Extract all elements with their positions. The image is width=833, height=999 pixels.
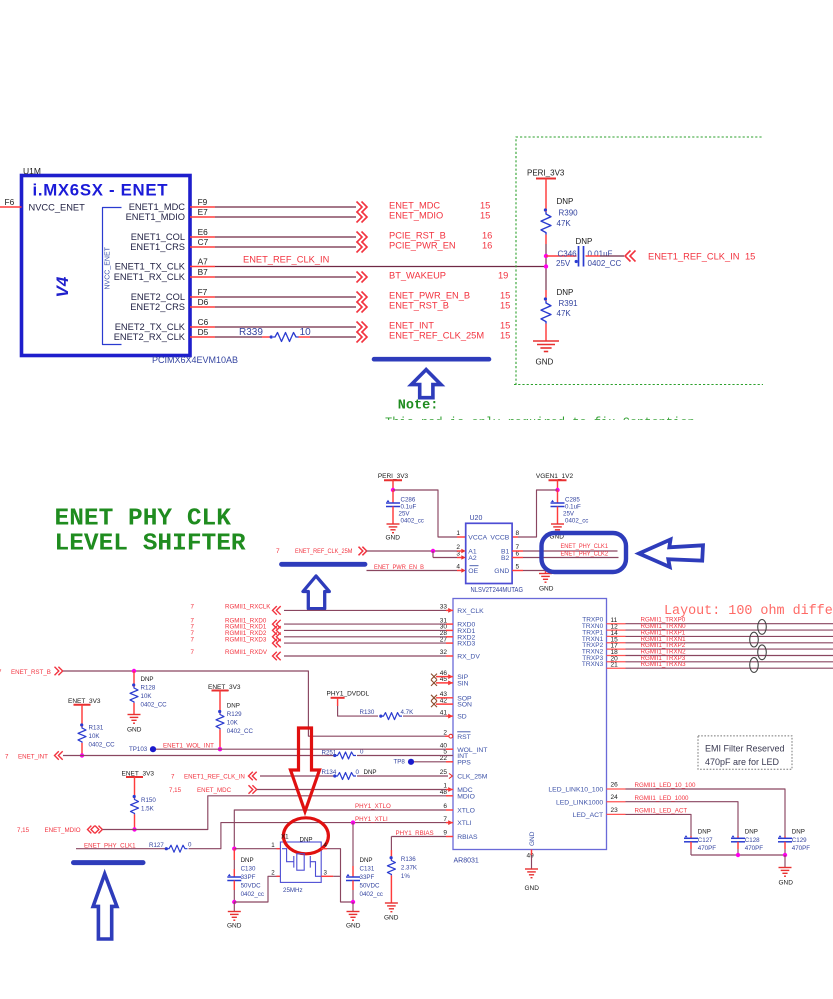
svg-text:ENET_INT: ENET_INT bbox=[389, 321, 434, 331]
svg-text:ENET_PHY_CLK2: ENET_PHY_CLK2 bbox=[561, 550, 609, 557]
off-page connector ENET_RST_B bbox=[357, 302, 368, 313]
green dashed region border bbox=[514, 137, 763, 385]
svg-text:NVCC_ENET: NVCC_ENET bbox=[29, 203, 86, 213]
wire PHY1_DVDDL to R130 bbox=[338, 706, 378, 716]
svg-text:16: 16 bbox=[482, 241, 492, 251]
node XTLI to C131 bbox=[351, 820, 355, 824]
svg-text:ENET1_REF_CLK_IN: ENET1_REF_CLK_IN bbox=[184, 774, 245, 781]
crystal internal symbol bbox=[282, 849, 321, 877]
wire ENET_MDC bbox=[215, 206, 356, 208]
blue annotation bar under ENET_REF_CLK_25M bbox=[374, 357, 489, 362]
svg-text:GND: GND bbox=[494, 568, 509, 575]
resistor R130 4.7K bbox=[379, 715, 382, 718]
node R128 junction bbox=[132, 669, 136, 673]
svg-text:33PF: 33PF bbox=[241, 874, 256, 881]
svg-text:25: 25 bbox=[440, 769, 448, 776]
svg-text:ENET1_COL: ENET1_COL bbox=[131, 232, 185, 242]
IC AR8031 PHY outline bbox=[453, 599, 607, 850]
wire R251 to INT bbox=[357, 755, 453, 757]
blue annotation up arrow (bottom left) bbox=[93, 874, 117, 939]
svg-text:DNP: DNP bbox=[227, 703, 240, 710]
svg-text:PHY1_XTLO: PHY1_XTLO bbox=[355, 803, 391, 810]
svg-text:7,15: 7,15 bbox=[169, 787, 182, 794]
svg-text:GND: GND bbox=[127, 727, 142, 734]
svg-text:33PF: 33PF bbox=[360, 874, 375, 881]
svg-text:ENET_MDC: ENET_MDC bbox=[197, 787, 232, 794]
svg-text:SON: SON bbox=[457, 702, 472, 709]
capacitor C129 DNP 470PF bbox=[784, 836, 786, 838]
off-page connector ENET_MDIO bbox=[357, 212, 368, 223]
node R150 to ENET_MDIO bbox=[132, 827, 136, 831]
capacitor C131 DNP 33PF bbox=[352, 823, 354, 866]
ground below AR8031 bbox=[525, 868, 538, 870]
svg-text:RGMII1_RXDV: RGMII1_RXDV bbox=[225, 649, 268, 656]
wire cap to connector bbox=[586, 255, 601, 257]
svg-text:ENET2_RX_CLK: ENET2_RX_CLK bbox=[114, 332, 186, 342]
resistor R136 2.37K 1% bbox=[390, 837, 392, 851]
svg-text:25V: 25V bbox=[556, 259, 571, 268]
off-page connector BT_WAKEUP bbox=[357, 272, 368, 283]
differential pair loop 1 bbox=[758, 620, 767, 635]
svg-text:15: 15 bbox=[745, 252, 755, 262]
svg-text:LED_ACT: LED_ACT bbox=[573, 812, 604, 819]
svg-text:0402_cc: 0402_cc bbox=[241, 891, 264, 898]
no-connect SIP bbox=[436, 676, 453, 678]
svg-text:0402_CC: 0402_CC bbox=[227, 728, 254, 735]
blue annotation up arrow (middle) bbox=[303, 576, 329, 609]
svg-text:VCCB: VCCB bbox=[490, 535, 509, 542]
svg-text:X1: X1 bbox=[281, 834, 289, 841]
svg-text:R339: R339 bbox=[239, 327, 263, 338]
crystal X1 DNP 25MHz outline bbox=[280, 842, 321, 882]
svg-text:MDIO: MDIO bbox=[457, 793, 475, 800]
wire C131 node to ground bbox=[352, 902, 354, 912]
wire RGMII1_RXCLK bbox=[284, 609, 446, 611]
svg-text:ENET1_CRS: ENET1_CRS bbox=[130, 242, 185, 252]
svg-text:DNP: DNP bbox=[576, 237, 593, 246]
svg-text:R390: R390 bbox=[559, 209, 579, 218]
svg-text:EMI Filter Reserved: EMI Filter Reserved bbox=[705, 744, 785, 754]
svg-text:15: 15 bbox=[480, 211, 490, 221]
differential pair loop 3 bbox=[758, 645, 767, 660]
svg-text:RGMII1_LED_1000: RGMII1_LED_1000 bbox=[635, 795, 690, 802]
svg-text:DNP: DNP bbox=[300, 837, 313, 844]
differential pair loop 2 bbox=[750, 632, 759, 647]
wire node to crystal pin1 bbox=[234, 848, 276, 850]
node C130 ground rail bbox=[232, 900, 236, 904]
svg-text:1.5K: 1.5K bbox=[141, 805, 155, 812]
svg-text:15: 15 bbox=[500, 331, 510, 341]
svg-text:RGMII1_RXCLK: RGMII1_RXCLK bbox=[225, 604, 271, 611]
svg-text:A2: A2 bbox=[468, 555, 477, 562]
wire ENET_REF_CLK_25M to A1 bbox=[367, 550, 458, 552]
node junction ENET_REF_CLK_IN bbox=[544, 264, 548, 268]
red annotation ellipse around crystal DNP bbox=[283, 818, 328, 854]
svg-text:PCIE_RST_B: PCIE_RST_B bbox=[389, 231, 446, 241]
wire crystal pin3 bbox=[321, 875, 333, 877]
capacitor C127 DNP 470PF bbox=[690, 836, 692, 838]
svg-text:4.7K: 4.7K bbox=[401, 709, 415, 716]
svg-text:CLK_25M: CLK_25M bbox=[457, 774, 488, 781]
svg-text:SIN: SIN bbox=[457, 681, 468, 688]
svg-text:ENET_RST_B: ENET_RST_B bbox=[11, 669, 51, 676]
svg-text:33: 33 bbox=[440, 604, 448, 611]
IC U1M i.MX6SX-ENET block outline bbox=[22, 176, 191, 356]
svg-text:U1M: U1M bbox=[23, 166, 41, 176]
wire ENET_PHY_CLK1 bbox=[76, 848, 166, 850]
svg-text:9: 9 bbox=[443, 830, 447, 837]
svg-text:F9: F9 bbox=[198, 197, 208, 207]
wire RGMII1_TRXP3 bbox=[626, 661, 833, 663]
svg-text:25MHz: 25MHz bbox=[283, 887, 303, 894]
svg-text:ENET1_MDIO: ENET1_MDIO bbox=[126, 212, 185, 222]
svg-text:V4: V4 bbox=[53, 276, 72, 297]
svg-text:GND: GND bbox=[386, 535, 401, 542]
svg-text:F6: F6 bbox=[5, 197, 15, 207]
capacitor C346 0.01uF bbox=[546, 255, 577, 257]
svg-text:RST: RST bbox=[457, 734, 471, 741]
svg-text:470PF: 470PF bbox=[745, 845, 763, 852]
blue annotation rounded box around ENET_PHY_CLK nets bbox=[542, 533, 627, 572]
off-page connector PCIE_RST_B bbox=[357, 232, 368, 243]
svg-text:C285: C285 bbox=[565, 497, 580, 504]
wire C130 node to ground bbox=[233, 902, 235, 912]
svg-text:TP103: TP103 bbox=[129, 746, 148, 753]
wire ENET_REF_CLK_25M left segment bbox=[215, 336, 262, 338]
wire ENET1_WOL_INT bbox=[156, 748, 446, 750]
svg-text:RGMII1_LED_10_100: RGMII1_LED_10_100 bbox=[635, 782, 696, 789]
wire RGMII1_RXD0 bbox=[284, 623, 446, 625]
wire RGMII1_RXD1 bbox=[284, 629, 446, 631]
capacitor C130 DNP 33PF bbox=[233, 849, 235, 860]
svg-text:7: 7 bbox=[5, 753, 9, 760]
svg-text:GND: GND bbox=[525, 885, 540, 892]
NVCC_ENET bracket bbox=[103, 208, 122, 345]
svg-text:DNP: DNP bbox=[557, 197, 574, 206]
ground below C130 bbox=[228, 911, 241, 913]
off-page connector ENET_REF_CLK_25M bbox=[357, 332, 368, 343]
no-connect SIN bbox=[436, 682, 453, 684]
svg-text:SD: SD bbox=[457, 714, 467, 721]
svg-text:DNP: DNP bbox=[141, 676, 154, 683]
red annotation down arrow bbox=[291, 728, 320, 812]
svg-text:15: 15 bbox=[500, 301, 510, 311]
svg-text:D5: D5 bbox=[198, 327, 209, 337]
svg-text:VGEN1_1V2: VGEN1_1V2 bbox=[536, 473, 574, 480]
svg-text:XTLI: XTLI bbox=[457, 820, 471, 827]
ground below C286 bbox=[387, 523, 400, 525]
wire TP8 to PPS bbox=[414, 761, 446, 763]
wire RGMII1_TRXP0 bbox=[626, 623, 833, 625]
svg-text:ENET_REF_CLK_25M: ENET_REF_CLK_25M bbox=[295, 548, 353, 555]
wire BT_WAKEUP bbox=[215, 276, 356, 278]
capacitor C285 0.1uF bbox=[557, 490, 559, 503]
wire RGMII1_TRXN2 bbox=[626, 655, 833, 657]
ground below C131 bbox=[347, 911, 360, 913]
svg-text:DNP: DNP bbox=[698, 829, 711, 836]
wire ENET_INT bbox=[215, 326, 356, 328]
svg-text:50VDC: 50VDC bbox=[360, 883, 380, 890]
wire RGMII1_LED_1000 bbox=[626, 802, 739, 836]
svg-text:GND: GND bbox=[529, 831, 536, 846]
svg-text:10K: 10K bbox=[227, 720, 239, 727]
svg-text:R131: R131 bbox=[89, 725, 104, 732]
svg-text:1: 1 bbox=[271, 842, 275, 849]
ground GND below R391 bbox=[533, 340, 559, 342]
svg-text:GND: GND bbox=[539, 586, 554, 593]
wire RGMII1_RXDV bbox=[284, 655, 446, 657]
svg-text:0.1uF: 0.1uF bbox=[565, 504, 581, 511]
svg-text:ENET1_RX_CLK: ENET1_RX_CLK bbox=[114, 272, 186, 282]
svg-text:A7: A7 bbox=[198, 257, 209, 267]
wire ENET_REF_CLK_25M right segment bbox=[299, 336, 311, 338]
svg-text:F7: F7 bbox=[198, 287, 208, 297]
svg-text:R134: R134 bbox=[322, 769, 337, 776]
wire B2 ENET_PHY_CLK2 bbox=[512, 557, 523, 559]
svg-text:AR8031: AR8031 bbox=[454, 858, 479, 865]
svg-text:15: 15 bbox=[500, 291, 510, 301]
svg-text:ENET_PWR_EN_B: ENET_PWR_EN_B bbox=[374, 564, 424, 571]
RST overline bbox=[457, 731, 470, 733]
svg-text:C6: C6 bbox=[198, 317, 209, 327]
svg-text:DNP: DNP bbox=[745, 829, 758, 836]
ground below R128 bbox=[128, 714, 141, 716]
svg-text:6: 6 bbox=[443, 803, 447, 810]
svg-text:0402_cc: 0402_cc bbox=[401, 518, 424, 525]
node C129 rail bbox=[783, 853, 787, 857]
svg-text:ENET2_TX_CLK: ENET2_TX_CLK bbox=[115, 322, 186, 332]
svg-text:RBIAS: RBIAS bbox=[457, 834, 478, 841]
resistor R127 0 bbox=[165, 847, 168, 850]
wire B1 ENET_PHY_CLK1 bbox=[512, 550, 523, 552]
svg-text:2.37K: 2.37K bbox=[401, 865, 418, 872]
svg-text:PPS: PPS bbox=[457, 759, 471, 766]
svg-text:RGMII1_LED_ACT: RGMII1_LED_ACT bbox=[635, 808, 688, 815]
wire ENET_RST_B bbox=[63, 671, 445, 736]
wire ENET_REF_CLK_IN (A7 to green box) bbox=[215, 266, 546, 268]
svg-text:ENET2_CRS: ENET2_CRS bbox=[130, 302, 185, 312]
svg-text:TP8: TP8 bbox=[394, 759, 406, 766]
wire ENET_RST_B bbox=[215, 306, 356, 308]
svg-text:U20: U20 bbox=[470, 515, 483, 522]
svg-text:ENET_PWR_EN_B: ENET_PWR_EN_B bbox=[389, 291, 470, 301]
resistor R131 10K bbox=[80, 723, 83, 726]
svg-text:RXD3: RXD3 bbox=[457, 641, 475, 648]
svg-text:RX_CLK: RX_CLK bbox=[457, 608, 484, 615]
wire RGMII1_LED_ACT bbox=[626, 814, 692, 836]
svg-text:0402_CC: 0402_CC bbox=[588, 259, 622, 268]
svg-text:32: 32 bbox=[440, 649, 448, 656]
wire ENET_PWR_EN_B bbox=[215, 296, 356, 298]
wire RGMII1_TRXP2 bbox=[626, 648, 833, 650]
svg-text:0.01uF: 0.01uF bbox=[588, 250, 613, 259]
node PERI_3V3 junction bbox=[391, 488, 395, 492]
wire junction vertical bbox=[545, 244, 547, 290]
svg-text:0402_cc: 0402_cc bbox=[565, 518, 588, 525]
off-page connector ENET_INT bbox=[357, 322, 368, 333]
svg-text:ENET_MDC: ENET_MDC bbox=[389, 201, 440, 211]
OE overline bbox=[470, 565, 479, 567]
svg-text:DNP: DNP bbox=[364, 769, 377, 776]
svg-text:C127: C127 bbox=[698, 837, 713, 844]
differential pair loop 4 bbox=[750, 658, 759, 673]
svg-text:GND: GND bbox=[536, 358, 554, 367]
svg-text:ENET_MDIO: ENET_MDIO bbox=[389, 211, 443, 221]
off-page connector ENET_PWR_EN_B bbox=[357, 292, 368, 303]
svg-text:B2: B2 bbox=[501, 555, 510, 562]
svg-text:ENET2_COL: ENET2_COL bbox=[131, 292, 185, 302]
svg-text:R251: R251 bbox=[322, 750, 337, 757]
svg-text:470PF: 470PF bbox=[698, 845, 716, 852]
svg-text:1: 1 bbox=[456, 530, 460, 537]
svg-text:VCCA: VCCA bbox=[468, 535, 487, 542]
svg-text:C346: C346 bbox=[558, 250, 578, 259]
wire RGMII1_RXD3 bbox=[284, 642, 446, 644]
blue annotation left arrow bbox=[639, 540, 703, 568]
wire branch to A2 bbox=[432, 551, 434, 558]
svg-text:4: 4 bbox=[456, 564, 460, 571]
svg-text:C286: C286 bbox=[401, 497, 416, 504]
off-page connector ENET_MDC bbox=[357, 202, 368, 213]
wire RGMII1_LED_10_100 bbox=[626, 789, 786, 836]
svg-text:2: 2 bbox=[443, 729, 447, 736]
wire RGMII1_TRXP1 bbox=[626, 635, 833, 637]
svg-text:ENET PHY CLK: ENET PHY CLK bbox=[55, 506, 232, 533]
svg-text:RGMII1_TRXN3: RGMII1_TRXN3 bbox=[641, 661, 687, 668]
svg-text:DNP: DNP bbox=[792, 829, 805, 836]
svg-text:7: 7 bbox=[191, 649, 195, 656]
wire crystal pin4 to ground rail bbox=[321, 848, 327, 850]
svg-text:1%: 1% bbox=[401, 873, 410, 880]
svg-text:C7: C7 bbox=[198, 237, 209, 247]
svg-text:BT_WAKEUP: BT_WAKEUP bbox=[389, 271, 446, 281]
svg-text:0402_CC: 0402_CC bbox=[89, 742, 116, 749]
node R129 to WOL_INT bbox=[218, 747, 222, 751]
IC U20 level shifter outline bbox=[466, 523, 512, 583]
wire ENET_MDC to MDC bbox=[257, 789, 446, 791]
svg-text:C129: C129 bbox=[792, 837, 807, 844]
svg-text:50VDC: 50VDC bbox=[241, 883, 261, 890]
node C131 ground rail bbox=[351, 900, 355, 904]
svg-text:47K: 47K bbox=[557, 219, 572, 228]
svg-text:GND: GND bbox=[227, 923, 242, 930]
svg-text:10K: 10K bbox=[141, 693, 153, 700]
svg-text:PHY1_XTLI: PHY1_XTLI bbox=[355, 816, 388, 823]
ground below U20 pin5 bbox=[539, 573, 552, 575]
svg-text:R391: R391 bbox=[559, 299, 579, 308]
svg-text:470pF are for LED: 470pF are for LED bbox=[705, 757, 780, 767]
svg-text:E6: E6 bbox=[198, 227, 209, 237]
node C128 rail bbox=[736, 853, 740, 857]
svg-text:PCIE_PWR_EN: PCIE_PWR_EN bbox=[389, 241, 456, 251]
resistor R129 DNP 10K bbox=[218, 710, 221, 713]
svg-text:41: 41 bbox=[440, 709, 448, 716]
svg-text:B7: B7 bbox=[198, 267, 209, 277]
no-connect SOP bbox=[436, 697, 453, 699]
svg-text:LED_LINK1000: LED_LINK1000 bbox=[556, 799, 603, 806]
svg-text:DNP: DNP bbox=[360, 857, 373, 864]
svg-text:Note:: Note: bbox=[398, 399, 439, 414]
svg-text:PCIMX6X4EVM10AB: PCIMX6X4EVM10AB bbox=[152, 355, 238, 365]
svg-text:24: 24 bbox=[611, 794, 619, 801]
svg-text:R130: R130 bbox=[360, 709, 375, 716]
svg-text:Layout: 100 ohm diffe: Layout: 100 ohm diffe bbox=[664, 604, 833, 619]
svg-text:TRXN3: TRXN3 bbox=[582, 661, 604, 668]
svg-text:NLSV2T244MUTAG: NLSV2T244MUTAG bbox=[471, 587, 524, 594]
wire ENET_PWR_EN_B to OE bbox=[367, 570, 458, 572]
svg-text:ENET1_REF_CLK_IN: ENET1_REF_CLK_IN bbox=[648, 252, 739, 262]
wire VGEN1_1V2 to VCCB bbox=[518, 490, 558, 537]
svg-text:7: 7 bbox=[191, 636, 195, 643]
svg-text:GND: GND bbox=[779, 880, 794, 887]
svg-text:C130: C130 bbox=[241, 866, 256, 873]
resistor R390 DNP 47K bbox=[544, 208, 547, 211]
svg-text:ENET1_WOL_INT: ENET1_WOL_INT bbox=[163, 743, 214, 750]
svg-text:LED_LINK10_100: LED_LINK10_100 bbox=[548, 787, 603, 794]
wire XTLO route bbox=[234, 810, 446, 849]
node junction cap branch bbox=[544, 254, 548, 258]
wire PCIE_PWR_EN bbox=[215, 246, 356, 248]
svg-text:7: 7 bbox=[276, 548, 280, 555]
blue annotation bar (middle) bbox=[282, 562, 366, 567]
wire RBIAS bbox=[391, 836, 446, 838]
resistor R251 0 bbox=[333, 754, 336, 757]
resistor R391 DNP 47K bbox=[545, 290, 547, 301]
wire R130 to SD bbox=[403, 715, 446, 717]
svg-text:0: 0 bbox=[188, 841, 192, 848]
svg-text:15: 15 bbox=[480, 201, 490, 211]
svg-text:DNP: DNP bbox=[241, 857, 254, 864]
svg-text:10K: 10K bbox=[89, 733, 101, 740]
svg-text:ENET1_TX_CLK: ENET1_TX_CLK bbox=[115, 262, 186, 272]
svg-text:XTLO: XTLO bbox=[457, 808, 475, 815]
svg-text:R127: R127 bbox=[149, 842, 164, 849]
svg-text:8: 8 bbox=[516, 530, 520, 537]
svg-text:ENET_RST_B: ENET_RST_B bbox=[389, 301, 449, 311]
svg-text:ENET_REF_CLK_IN: ENET_REF_CLK_IN bbox=[243, 255, 329, 265]
svg-text:26: 26 bbox=[611, 782, 619, 789]
svg-text:NVCC_ENET: NVCC_ENET bbox=[105, 246, 112, 289]
svg-text:ENET_INT: ENET_INT bbox=[18, 753, 48, 760]
svg-text:C131: C131 bbox=[360, 866, 375, 873]
blue annotation bar (bottom left) bbox=[74, 860, 144, 865]
wire crystal pin2 to ground rail bbox=[234, 876, 276, 902]
svg-text:PERI_3V3: PERI_3V3 bbox=[527, 168, 565, 177]
wire RGMII1_TRXN0 bbox=[626, 629, 833, 631]
svg-text:0402_CC: 0402_CC bbox=[141, 702, 168, 709]
resistor R150 1.5K bbox=[133, 795, 136, 798]
svg-text:19: 19 bbox=[498, 271, 508, 281]
svg-text:D6: D6 bbox=[198, 297, 209, 307]
svg-text:7: 7 bbox=[171, 774, 175, 781]
svg-text:25V: 25V bbox=[399, 511, 411, 518]
wire RGMII1_TRXN3 bbox=[626, 667, 833, 669]
ground below R136 bbox=[385, 902, 398, 904]
pin F6 stub bbox=[0, 206, 22, 208]
svg-text:PERI_3V3: PERI_3V3 bbox=[378, 473, 409, 480]
svg-text:ENET_MDIO: ENET_MDIO bbox=[45, 827, 81, 834]
svg-text:470PF: 470PF bbox=[792, 845, 810, 852]
svg-text:15: 15 bbox=[500, 321, 510, 331]
svg-text:ENET1_MDC: ENET1_MDC bbox=[129, 202, 186, 212]
wire ENET1_REF_CLK_IN bbox=[260, 775, 335, 777]
white clip over note line bbox=[378, 420, 798, 436]
wire RGMII1_TRXN1 bbox=[626, 642, 833, 644]
svg-text:49: 49 bbox=[527, 853, 535, 860]
EMI note dotted box bbox=[698, 736, 792, 769]
svg-text:E7: E7 bbox=[198, 207, 209, 217]
svg-text:25V: 25V bbox=[563, 511, 575, 518]
